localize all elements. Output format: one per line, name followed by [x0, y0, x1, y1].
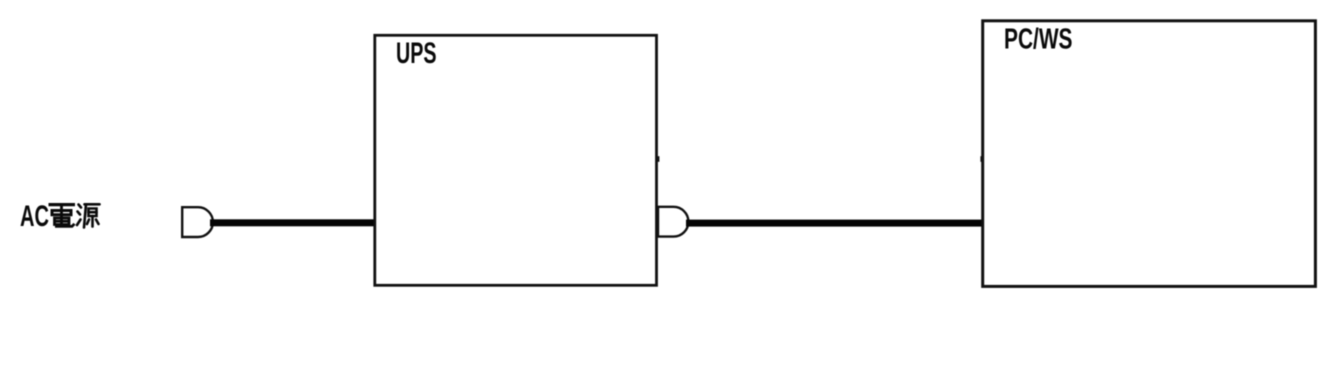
svg-text:AC: AC — [20, 200, 49, 233]
connector plug P2 (UPS output) — [658, 207, 688, 237]
pin tick on PC/WS left edge — [980, 156, 984, 162]
PC/WS box — [983, 21, 1316, 287]
pin tick on UPS right edge — [656, 156, 660, 162]
wire W1: plug P1 to UPS — [210, 219, 377, 226]
UPS box — [375, 35, 657, 285]
wire W2: plug P2 to PC/WS — [686, 220, 982, 227]
node label kanji 電 — [49, 203, 76, 226]
node label kanji 源 — [77, 204, 100, 227]
svg-text:PC/WS: PC/WS — [1004, 24, 1073, 56]
svg-text:UPS: UPS — [396, 37, 437, 70]
connector plug P1 (AC source plug) — [182, 207, 213, 237]
